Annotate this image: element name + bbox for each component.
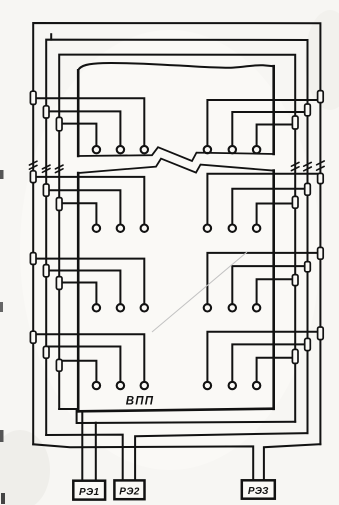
wire left row3 from rail to contact xyxy=(59,283,96,305)
contact left row2 #3 xyxy=(141,225,148,232)
wire outer loop bottom-right bus from RE3 xyxy=(264,444,321,480)
resistor left row2 a xyxy=(30,171,36,183)
svg-text:ВПП: ВПП xyxy=(126,396,154,408)
wire break mark on outer-left rail xyxy=(29,161,37,165)
resistor left row3 c xyxy=(56,277,62,290)
wire outer loop left/top/right xyxy=(33,23,320,444)
contact right row4 #1 xyxy=(204,382,211,389)
wire right row3 from rail to contact xyxy=(257,279,296,304)
contact right row2 #1 xyxy=(204,225,211,232)
contact right row1 #2 xyxy=(229,146,236,153)
contact right row3 #1 xyxy=(204,304,211,311)
wire break mark on second-left rail xyxy=(42,165,50,169)
wire right row1 from rail to contact xyxy=(207,100,320,146)
resistor right row1 b xyxy=(305,104,311,116)
contact left row2 #2 xyxy=(117,225,124,232)
contact right row3 #3 xyxy=(253,304,260,311)
contact right row2 #2 xyxy=(229,225,236,232)
wire right row2 from rail to contact xyxy=(232,189,307,225)
wire left row2 from rail to contact xyxy=(46,190,120,224)
wire left row2 from rail to contact xyxy=(33,177,144,225)
node VPP unit box right edge upper xyxy=(272,66,275,154)
resistor right row3 b xyxy=(305,262,311,272)
resistor right row1 a xyxy=(318,91,324,103)
contact left row4 #2 xyxy=(117,382,124,389)
resistor left row1 c xyxy=(56,117,62,130)
wire third loop bottom jog and bus xyxy=(59,409,295,423)
wire left row1 from rail to contact xyxy=(59,124,96,146)
wire right row1 from rail to contact xyxy=(232,112,307,146)
node VPP unit box bottom edge xyxy=(78,409,274,412)
contact right row4 #3 xyxy=(253,382,260,389)
node VPP unit box top edge (wavy) xyxy=(78,63,274,70)
wire right row1 from rail to contact xyxy=(257,125,296,146)
resistor left row1 a xyxy=(30,91,36,104)
resistor left row3 a xyxy=(30,253,36,265)
contact right row1 #1 xyxy=(204,146,211,153)
resistor right row2 b xyxy=(305,183,311,195)
contact left row3 #2 xyxy=(117,304,124,311)
wire right row3 from rail to contact xyxy=(207,253,320,304)
wire break mark on outer-right rail xyxy=(317,161,325,165)
resistor right row2 c xyxy=(292,196,298,208)
wire right row2 from rail to contact xyxy=(207,174,320,225)
wire third loop left/top/right xyxy=(59,55,295,422)
resistor right row4 b xyxy=(305,338,311,350)
contact left row3 #1 xyxy=(93,304,100,311)
wire break mark on third-left rail xyxy=(55,165,63,169)
wire right row4 from rail to contact xyxy=(207,332,320,382)
node VPP unit box right edge lower xyxy=(272,171,275,409)
wire left row1 from rail to contact xyxy=(33,98,144,146)
wire left row4 from rail to contact xyxy=(46,347,120,382)
svg-text:РЭ1: РЭ1 xyxy=(79,487,99,498)
svg-text:РЭ2: РЭ2 xyxy=(119,487,139,498)
resistor left row3 b xyxy=(43,265,49,277)
wire RE1 right lead xyxy=(95,423,97,481)
wire RE1 left lead xyxy=(81,411,83,481)
contact left row1 #3 xyxy=(141,146,148,153)
wire left row3 from rail to contact xyxy=(33,259,144,305)
resistor right row4 a xyxy=(318,327,324,340)
wire left row2 from rail to contact xyxy=(59,203,96,224)
node VPP unit box left edge upper xyxy=(77,70,80,156)
wire second loop left/top/right xyxy=(46,40,307,435)
resistor left row2 c xyxy=(56,198,62,211)
contact right row1 #3 xyxy=(253,146,260,153)
resistor left row1 b xyxy=(43,106,49,118)
wire left row4 from rail to contact xyxy=(59,361,96,382)
relay RE2 xyxy=(114,480,144,499)
wire tear upper jagged edge xyxy=(78,147,274,161)
contact right row3 #2 xyxy=(229,304,236,311)
wire right row4 from rail to contact xyxy=(232,344,307,381)
contact right row4 #2 xyxy=(229,382,236,389)
wire stub above second loop top xyxy=(50,34,52,39)
resistor left row4 c xyxy=(56,359,62,371)
contact left row1 #2 xyxy=(117,146,124,153)
svg-text:РЭЗ: РЭЗ xyxy=(248,486,269,497)
node VPP unit box left edge lower xyxy=(77,173,80,411)
resistor right row1 c xyxy=(292,116,298,129)
resistor left row2 b xyxy=(43,184,49,196)
wire left row3 from rail to contact xyxy=(46,271,120,305)
resistor left row4 b xyxy=(43,346,49,358)
wire right row4 from rail to contact xyxy=(257,358,296,382)
resistor right row3 c xyxy=(292,275,298,286)
wire break mark on third-right rail xyxy=(291,162,299,166)
wire right row2 from rail to contact xyxy=(257,204,296,225)
wire right row3 from rail to contact xyxy=(232,266,307,304)
wire second loop bottom-right bus from RE2 xyxy=(135,433,307,480)
wire outer loop bottom-left bus to RE3 xyxy=(33,444,253,480)
relay RE3 xyxy=(242,480,275,498)
contact left row4 #3 xyxy=(141,382,148,389)
resistor right row3 a xyxy=(318,247,324,259)
contact right row2 #3 xyxy=(253,225,260,232)
resistor left row4 a xyxy=(30,331,36,343)
scan artifact faint diagonal xyxy=(152,252,247,332)
resistor right row2 a xyxy=(318,173,324,183)
wire left row1 from rail to contact xyxy=(46,111,120,145)
contact left row2 #1 xyxy=(93,225,100,232)
contact left row1 #1 xyxy=(93,146,100,153)
contact left row3 #3 xyxy=(141,304,148,311)
relay RE1 xyxy=(73,481,105,500)
wire second loop bottom-left bus to RE2 xyxy=(46,435,123,481)
wire tear lower jagged edge xyxy=(78,159,274,173)
wire left row4 from rail to contact xyxy=(33,334,144,382)
contact left row4 #1 xyxy=(93,382,100,389)
scan artifact left edge marks xyxy=(0,170,4,179)
resistor right row4 c xyxy=(292,349,298,363)
wire break mark on second-right rail xyxy=(304,162,312,166)
